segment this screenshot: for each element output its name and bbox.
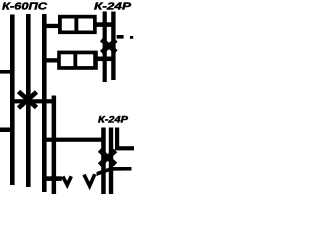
wire H6 [97,167,132,176]
check mark V1 [63,176,72,185]
wire stub H1 [0,70,13,74]
capacitor block box1 [58,15,97,34]
wire S4 [97,57,116,62]
svg-text:К-24Р: К-24Р [94,1,132,13]
splice mark X1 [19,92,37,109]
check mark V2 [84,174,95,186]
dash 2 [130,36,133,39]
wire bus F [109,128,113,195]
svg-text:К-24Р: К-24Р [98,115,129,126]
wire bus B4 [52,96,57,195]
wire stub S1 [46,24,59,28]
wire bus G [115,128,119,151]
wire H2 [10,99,56,103]
wire H7 [46,176,62,181]
splice mark X2 [102,40,117,53]
wire S2 [97,22,116,27]
wire stub H3 [0,128,13,133]
wire stub S3 [46,58,58,62]
wire H5 [116,146,135,150]
dash 1 [117,35,124,39]
capacitor block box2 [57,51,98,70]
wire bus C [103,12,107,83]
wire H4 [44,138,104,142]
wire bus B3 [42,14,47,192]
wire bus D [111,12,115,81]
wire bus B2 [26,14,31,187]
wire bus B1 [10,15,15,186]
svg-text:К-60ПС: К-60ПС [2,1,48,13]
splice mark X3 [100,150,116,165]
wire bus E [101,128,106,195]
